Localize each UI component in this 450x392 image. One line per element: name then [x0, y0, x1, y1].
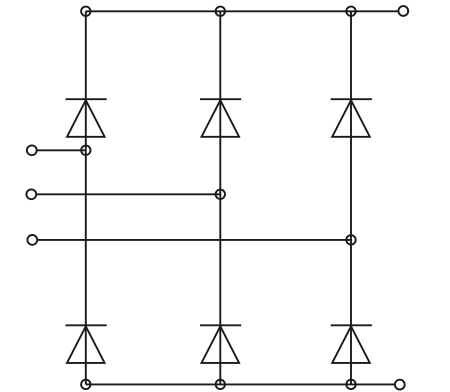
node junction row 2 / leg 2 — [216, 190, 225, 199]
node junction row 3 / leg 3 — [346, 235, 355, 244]
wire AC input row 3 — [37, 239, 351, 241]
terminal AC phase 3 (left) — [27, 235, 37, 245]
node junction top bus / leg 2 — [216, 7, 225, 16]
diode D1 (top left) — [66, 99, 107, 137]
diode D2 (bottom right) — [331, 325, 372, 363]
terminal AC phase 1 (left) — [27, 145, 37, 155]
wire left column (phase leg 1) — [85, 11, 87, 384]
wire right column (phase leg 3) — [350, 11, 352, 384]
node junction bottom bus / leg 3 — [346, 380, 355, 389]
diode D4 (bottom left) — [66, 325, 107, 363]
wire AC input row 1 — [37, 149, 86, 151]
wire AC input row 2 — [36, 193, 220, 195]
wire top bus — [86, 10, 398, 12]
diode D6 (bottom middle) — [200, 325, 241, 363]
node junction top bus / leg 3 — [346, 7, 355, 16]
wire middle column (phase leg 2) — [219, 11, 221, 384]
terminal DC+ (top right) — [398, 6, 408, 16]
terminal AC phase 2 (left) — [26, 189, 36, 199]
wire bottom bus — [86, 383, 395, 385]
node junction row 1 / leg 1 — [81, 146, 90, 155]
node junction top bus / leg 1 — [81, 7, 90, 16]
terminal DC- (bottom right) — [395, 380, 405, 390]
diode D3 (top middle) — [200, 99, 241, 137]
diode D5 (top right) — [331, 99, 372, 137]
node junction bottom bus / leg 2 — [216, 380, 225, 389]
node junction bottom bus / leg 1 — [81, 380, 90, 389]
